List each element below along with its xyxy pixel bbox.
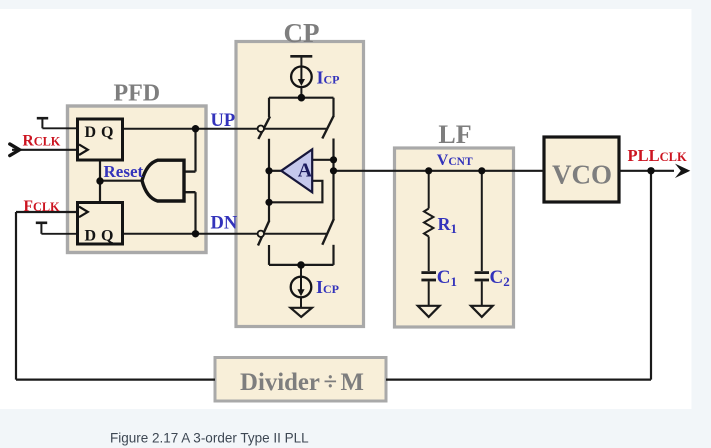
svg-text:D: D (85, 227, 97, 244)
svg-text:DN: DN (211, 214, 238, 234)
svg-text:Figure 2.17 A 3-order Type II: Figure 2.17 A 3-order Type II PLL (110, 430, 309, 445)
svg-text:FCLK: FCLK (24, 198, 61, 215)
svg-text:Q: Q (101, 227, 113, 244)
svg-text:A: A (298, 160, 313, 182)
svg-text:PFD: PFD (113, 81, 160, 107)
svg-text:D: D (85, 124, 97, 141)
svg-text:LF: LF (438, 120, 471, 149)
svg-text:Reset: Reset (104, 162, 144, 181)
svg-text:UP: UP (211, 111, 236, 131)
svg-text:Divider÷M: Divider÷M (240, 369, 364, 396)
svg-text:RCLK: RCLK (23, 133, 61, 150)
svg-text:CP: CP (284, 18, 320, 48)
svg-text:Q: Q (101, 124, 113, 141)
svg-text:VCO: VCO (552, 160, 612, 190)
